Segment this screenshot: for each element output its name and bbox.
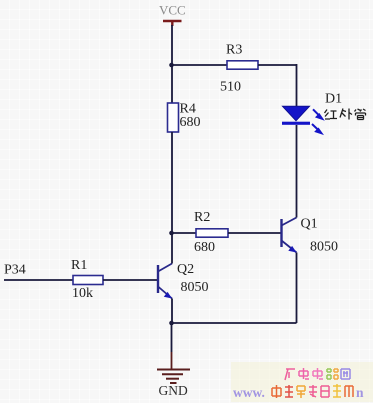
svg-text:8050: 8050 <box>310 240 338 255</box>
红 <box>325 110 338 120</box>
wire node B to Q2 collector <box>171 233 173 264</box>
wire corner down to D1 <box>296 64 298 107</box>
wire Q2 emitter down to node C <box>171 299 173 324</box>
resistor R2 <box>196 229 228 237</box>
svg-text:R2: R2 <box>194 210 210 225</box>
resistor R3 <box>227 61 258 69</box>
watermark background tint <box>231 362 373 402</box>
svg-text:Q1: Q1 <box>301 217 318 232</box>
node A junction dot <box>169 63 174 68</box>
resistor R1 <box>73 276 103 285</box>
D1 emission arrow 2 <box>312 124 321 133</box>
wire Q1 emitter down <box>296 253 298 324</box>
wire R1 to Q2 base <box>103 279 157 281</box>
D1 emission arrow 1 <box>313 109 322 119</box>
wire R2 to Q1 base <box>228 232 281 234</box>
transistor Q2 <box>158 264 172 299</box>
管 <box>355 109 366 120</box>
svg-text:510: 510 <box>220 80 241 95</box>
svg-text:8050: 8050 <box>181 280 209 295</box>
svg-text:D1: D1 <box>325 92 342 107</box>
svg-text:GND: GND <box>159 383 188 398</box>
GND lead <box>171 352 173 369</box>
wire R3 to top right corner <box>258 64 297 66</box>
svg-text:VCC: VCC <box>159 3 186 18</box>
wire node A down to R4 <box>171 65 173 103</box>
node C junction dot <box>169 321 174 326</box>
wire P34 to R1 <box>4 279 73 281</box>
LED D1 <box>282 106 310 124</box>
node B junction dot <box>169 231 174 236</box>
ground <box>157 370 190 384</box>
wire R4 to node B <box>171 132 173 233</box>
wire node C down to GND <box>171 323 173 352</box>
wire node A to R3 <box>172 64 228 66</box>
resistor R4 <box>168 103 179 132</box>
svg-text:680: 680 <box>194 240 215 255</box>
watermark www line <box>233 384 364 400</box>
transistor Q1 <box>282 218 297 253</box>
wire D1 to Q1 collector <box>296 125 298 218</box>
svg-text:P34: P34 <box>4 263 26 278</box>
svg-text:R1: R1 <box>71 258 87 273</box>
svg-text:10k: 10k <box>72 286 93 301</box>
wire node B to R2 <box>172 232 197 234</box>
外 <box>340 109 352 120</box>
svg-text:R3: R3 <box>226 43 242 58</box>
watermark 广电电器网 (fake glyphs) <box>285 368 350 380</box>
svg-text:www.: www. <box>233 385 265 400</box>
svg-text:Q2: Q2 <box>177 262 194 277</box>
wire VCC to node A <box>171 25 173 65</box>
svg-text:680: 680 <box>180 115 201 130</box>
wire node C to right emitter branch <box>172 322 297 324</box>
VCC power bar symbol <box>163 21 182 26</box>
D1 name 红外管 (drawn strokes) <box>325 109 366 120</box>
svg-text:n: n <box>356 385 364 400</box>
